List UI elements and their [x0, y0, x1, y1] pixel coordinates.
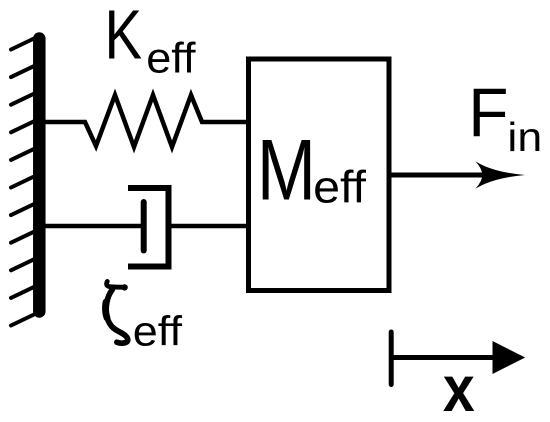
mass M_eff — [249, 59, 390, 291]
label K_eff — [105, 0, 197, 82]
wall — [33, 39, 46, 312]
spring K_eff — [45, 95, 246, 147]
damper wire to mass — [169, 224, 247, 229]
svg-text:F: F — [468, 75, 508, 152]
svg-text:x: x — [443, 353, 475, 422]
displacement axis origin tick — [389, 332, 394, 385]
svg-text:K: K — [105, 0, 143, 74]
label zeta_eff — [105, 281, 182, 355]
damper piston rod — [141, 202, 147, 251]
svg-text:M: M — [257, 121, 316, 218]
damper wire from wall — [45, 224, 141, 229]
displacement axis arrow — [391, 341, 525, 374]
svg-text:eff: eff — [133, 309, 183, 355]
svg-text:in: in — [507, 115, 542, 161]
damper cylinder — [128, 188, 169, 267]
label F_in — [468, 75, 542, 161]
label M_eff — [257, 121, 367, 218]
svg-text:eff: eff — [313, 162, 367, 212]
wall hatching — [11, 39, 34, 326]
force arrow F_in — [392, 161, 526, 189]
svg-text:eff: eff — [146, 34, 196, 82]
